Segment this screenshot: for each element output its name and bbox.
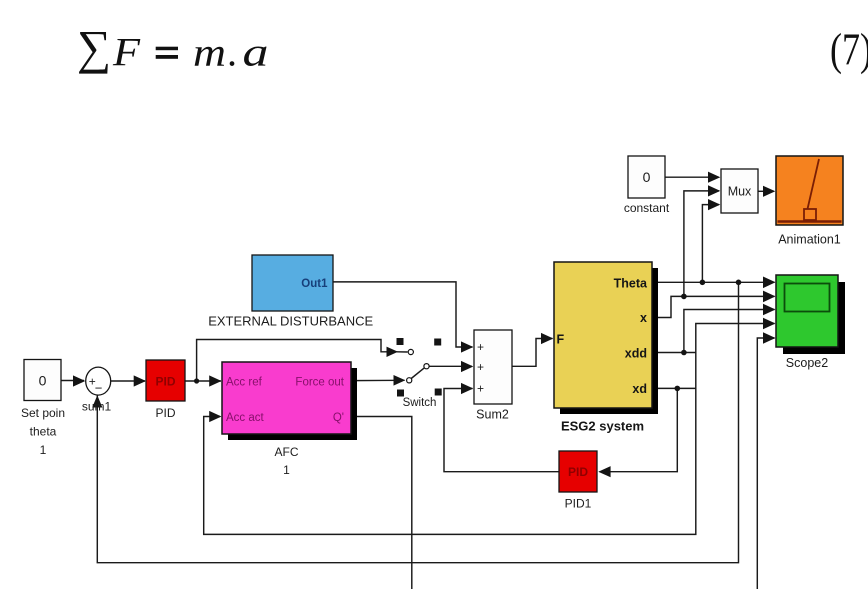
svg-text:∑: ∑ bbox=[77, 22, 111, 75]
svg-text:Acc ref: Acc ref bbox=[226, 377, 263, 389]
svg-text:ESG2 system: ESG2 system bbox=[561, 419, 644, 434]
svg-text:0: 0 bbox=[643, 169, 651, 185]
svg-text:+: + bbox=[477, 382, 484, 396]
svg-text:Out1: Out1 bbox=[301, 278, 328, 290]
svg-text:0: 0 bbox=[39, 373, 47, 389]
svg-text:+: + bbox=[477, 360, 484, 374]
svg-text:1: 1 bbox=[40, 443, 47, 457]
svg-text:Acc act: Acc act bbox=[226, 412, 265, 424]
svg-text:AFC: AFC bbox=[275, 445, 299, 459]
svg-text:theta: theta bbox=[30, 425, 57, 439]
svg-text:m: m bbox=[193, 30, 226, 75]
svg-text:xd: xd bbox=[632, 382, 647, 396]
svg-text:sum1: sum1 bbox=[82, 400, 112, 414]
svg-text:Set poin: Set poin bbox=[21, 406, 65, 420]
svg-text:xdd: xdd bbox=[625, 347, 647, 361]
svg-text:.: . bbox=[227, 30, 237, 75]
svg-text:Force out: Force out bbox=[295, 377, 344, 389]
svg-text:PID: PID bbox=[155, 406, 175, 420]
svg-text:Scope2: Scope2 bbox=[786, 356, 828, 370]
svg-text:constant: constant bbox=[624, 201, 670, 215]
svg-text:+: + bbox=[477, 340, 484, 354]
svg-text:Q': Q' bbox=[333, 412, 344, 424]
svg-text:Theta: Theta bbox=[614, 277, 648, 291]
svg-text:(7): (7) bbox=[830, 24, 868, 75]
svg-text:PID: PID bbox=[155, 375, 175, 389]
svg-text:−: − bbox=[95, 381, 103, 396]
svg-text:Animation1: Animation1 bbox=[778, 233, 841, 247]
svg-text:PID: PID bbox=[568, 465, 588, 479]
svg-text:Sum2: Sum2 bbox=[476, 408, 509, 422]
svg-text:F: F bbox=[557, 333, 565, 347]
svg-text:1: 1 bbox=[283, 463, 290, 477]
svg-text:EXTERNAL DISTURBANCE: EXTERNAL DISTURBANCE bbox=[208, 314, 373, 329]
svg-text:Mux: Mux bbox=[728, 185, 752, 199]
svg-text:Switch: Switch bbox=[403, 397, 437, 409]
svg-text:F: F bbox=[112, 30, 141, 75]
svg-text:PID1: PID1 bbox=[565, 497, 592, 511]
svg-text:a: a bbox=[243, 30, 269, 75]
svg-text:x: x bbox=[640, 311, 647, 325]
